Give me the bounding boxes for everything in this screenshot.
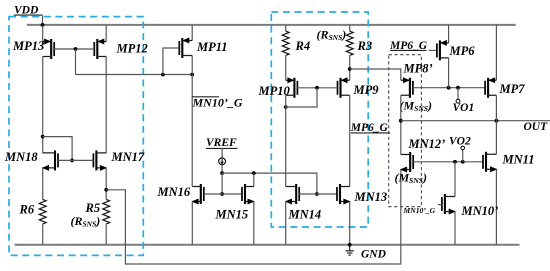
wire MP10 diode connection bbox=[284, 88, 317, 109]
label net MP6_G at MP6 gate bbox=[389, 40, 437, 52]
wire VDD rail bbox=[27, 24, 516, 26]
svg-text:GND: GND bbox=[361, 248, 387, 260]
svg-text:MP13: MP13 bbox=[12, 39, 44, 53]
transistor MN18 bbox=[4, 150, 58, 171]
svg-text:MN13: MN13 bbox=[354, 190, 388, 204]
svg-text:R4: R4 bbox=[295, 39, 311, 53]
wire MN10 drain riser bbox=[454, 162, 456, 197]
resistor R4 bbox=[282, 25, 310, 80]
wire MP9 drain to MN13 drain net MP6_G bbox=[350, 95, 390, 186]
svg-text:MP8’: MP8’ bbox=[403, 61, 433, 75]
wire MN14-MN13 gate line bbox=[299, 193, 337, 195]
svg-text:MN18: MN18 bbox=[4, 150, 38, 164]
wire MN16-MN15 gate line bbox=[204, 193, 242, 195]
wire MN18-MN17 gate line bbox=[58, 159, 93, 161]
svg-text:MP11: MP11 bbox=[196, 40, 228, 54]
svg-text:VO2: VO2 bbox=[449, 136, 471, 148]
wire MP12 drain to MN17 drain bbox=[105, 57, 107, 153]
svg-text:MP12: MP12 bbox=[116, 42, 148, 56]
dashed box first stage bbox=[9, 17, 143, 256]
wire MN16 source to ground bbox=[191, 202, 193, 245]
wire MP10 drain to MN14 drain bbox=[285, 95, 287, 186]
svg-text:MN14: MN14 bbox=[288, 208, 322, 222]
transistor MN12' MSNS bbox=[395, 137, 446, 185]
resistor R6 bbox=[19, 168, 47, 245]
wire MP8 gate to MP7 gate line bbox=[413, 86, 485, 90]
wire MP7 drain to OUT bbox=[495, 95, 497, 120]
svg-text:(MSNS): (MSNS) bbox=[400, 99, 432, 114]
node VDD bbox=[14, 5, 45, 27]
wire MP11 drain to MN16 drain net MN10p_G bbox=[192, 56, 243, 187]
svg-text:OUT: OUT bbox=[524, 121, 549, 133]
svg-text:MN11: MN11 bbox=[502, 152, 535, 166]
wire MN13 source to ground junction bbox=[348, 202, 352, 247]
svg-text:MP6_G: MP6_G bbox=[350, 122, 389, 134]
svg-text:MP6: MP6 bbox=[449, 44, 476, 58]
transistor MN17 bbox=[93, 150, 144, 171]
wire MP10-MP9 gate line bbox=[297, 86, 337, 90]
transistor MN11 bbox=[483, 152, 534, 173]
wire MN15 source to ground bbox=[253, 202, 255, 245]
resistor R5 (RSNS) bbox=[71, 168, 110, 245]
node VREF source symbol bbox=[206, 137, 238, 196]
svg-text:R3: R3 bbox=[357, 39, 373, 53]
transistor MP12 bbox=[94, 25, 147, 59]
svg-text:MN10’_G: MN10’_G bbox=[403, 206, 436, 215]
svg-text:MN16: MN16 bbox=[157, 185, 191, 199]
resistor R3 (RSNS) bbox=[317, 25, 373, 80]
wire MP8 drain to MN12 drain bbox=[399, 95, 403, 154]
dashed box MSNS sense pair bbox=[389, 55, 422, 207]
transistor MP8' MSNS bbox=[400, 61, 433, 113]
wire MP6 drain to gate line bbox=[448, 58, 450, 88]
transistor MP7 bbox=[485, 25, 525, 98]
transistor MP10 bbox=[258, 77, 298, 98]
dashed box second stage bbox=[271, 12, 368, 227]
wire ground rail bbox=[15, 244, 520, 246]
svg-text:MN10’: MN10’ bbox=[461, 204, 499, 218]
svg-text:(RSNS): (RSNS) bbox=[317, 27, 347, 42]
wire feedback R5 to MN12 source bbox=[106, 170, 401, 265]
wire MN14 source to ground bbox=[285, 202, 287, 245]
svg-text:R6: R6 bbox=[19, 202, 35, 216]
transistor MP11 bbox=[163, 25, 228, 75]
wire MP8 source tap from R3 bbox=[350, 69, 401, 80]
wire OUT line bbox=[401, 119, 550, 133]
wire MP13 drain to MN18 drain bbox=[41, 57, 45, 153]
svg-text:MN17: MN17 bbox=[111, 150, 145, 164]
svg-text:(MSNS): (MSNS) bbox=[395, 170, 427, 185]
transistor MN10' bbox=[403, 194, 499, 218]
transistor MP13 bbox=[12, 25, 54, 59]
transistor MP9 bbox=[338, 77, 380, 98]
transistor MP6 bbox=[437, 25, 475, 61]
svg-text:R5: R5 bbox=[85, 201, 101, 215]
transistor MN13 bbox=[337, 184, 387, 205]
transistor MN15 bbox=[215, 173, 255, 221]
svg-text:MN12’: MN12’ bbox=[408, 137, 446, 151]
wire MN12 gate to MN11 gate line bbox=[413, 160, 483, 164]
svg-text:MN15: MN15 bbox=[215, 207, 249, 221]
wire MN11 drain to OUT bbox=[495, 121, 497, 155]
wire MP13-MP12 gate link bbox=[54, 47, 94, 74]
svg-text:VO1: VO1 bbox=[453, 102, 475, 114]
svg-text:(RSNS): (RSNS) bbox=[71, 214, 101, 229]
ground symbol GND bbox=[346, 245, 387, 260]
transistor MN14 bbox=[285, 184, 321, 222]
node VO2 bbox=[449, 136, 471, 162]
wire VREF bus to MN14/MN13 gates bbox=[222, 171, 319, 196]
svg-text:MP9: MP9 bbox=[353, 83, 380, 97]
wire MN11 source to ground bbox=[495, 169, 497, 245]
wire MN10 source to ground bbox=[454, 212, 456, 245]
transistor MN16 bbox=[157, 184, 204, 205]
wire gate bus to MP11 drain bbox=[76, 73, 195, 77]
svg-text:VREF: VREF bbox=[206, 137, 237, 149]
wire MN18 diode connection bbox=[43, 137, 74, 163]
node VO1 bbox=[453, 88, 475, 114]
svg-text:MN10’_G: MN10’_G bbox=[192, 96, 243, 110]
svg-text:MP7: MP7 bbox=[499, 82, 526, 96]
